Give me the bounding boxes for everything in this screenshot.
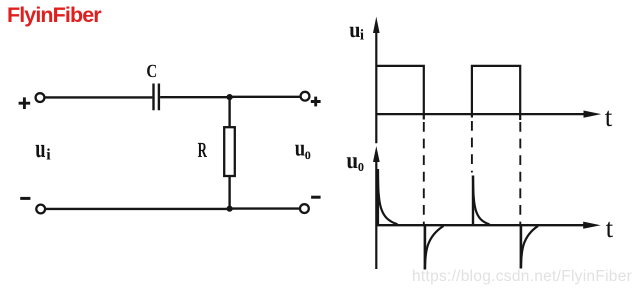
arrowhead u_i axis — [373, 17, 380, 33]
arrowhead t bottom — [583, 222, 601, 229]
u_o spike 2 negative edge — [424, 225, 427, 270]
wire bottom nodeB-to-output — [230, 207, 300, 209]
svg-text:i: i — [46, 147, 51, 164]
dashed line t1 — [423, 122, 425, 225]
svg-text:u: u — [346, 148, 358, 174]
label + (output top) — [311, 97, 321, 107]
u_o spike 4 decay — [521, 226, 538, 269]
resistor R — [224, 127, 235, 176]
dashed line t3 — [519, 122, 521, 225]
svg-text:u: u — [349, 17, 360, 42]
dashed line t2 — [471, 121, 473, 173]
svg-text:t: t — [606, 213, 614, 243]
watermark url text — [412, 268, 632, 286]
u_o spike 1 decay — [378, 169, 398, 224]
waveform u_i square wave pulse 1 — [376, 66, 423, 120]
svg-text:o: o — [358, 156, 364, 175]
terminal bottom-left — [36, 205, 45, 214]
terminal top-left — [36, 93, 45, 102]
terminal top-right — [301, 92, 310, 101]
axis t bottom horizontal — [376, 224, 586, 226]
arrowhead t top — [584, 111, 602, 118]
svg-text:C: C — [146, 61, 157, 82]
u_o spike 2 decay — [425, 226, 444, 270]
svg-text:u: u — [35, 133, 46, 163]
svg-text:u: u — [295, 135, 305, 161]
node A (top junction) — [227, 94, 233, 100]
wire top nodeA-to-output — [230, 96, 301, 98]
terminal bottom-right — [300, 204, 309, 213]
u_o spike 4 negative edge — [520, 225, 523, 269]
svg-text:i: i — [360, 27, 364, 43]
label minus (output bottom) — [311, 196, 321, 199]
arrowhead u_o axis — [373, 146, 380, 162]
label minus (input bottom) — [20, 197, 30, 200]
svg-text:o: o — [305, 146, 311, 163]
wire nodeA-to-R — [228, 97, 230, 128]
node B (bottom junction) — [227, 206, 233, 212]
svg-text:t: t — [605, 102, 613, 132]
u_o spike 1 positive edge — [377, 169, 379, 225]
wire R-to-nodeB — [228, 176, 230, 209]
wire bottom input-to-nodeB — [45, 208, 229, 210]
u_o spike 3 positive edge — [472, 176, 474, 225]
label + (input top) — [19, 97, 31, 109]
wire top input-to-C — [45, 96, 153, 98]
svg-text:R: R — [198, 138, 208, 162]
logo text FlyinFiber — [7, 3, 101, 28]
u_o spike 3 decay — [473, 176, 490, 225]
waveform u_i square wave pulse 2 — [472, 66, 520, 120]
wire top C-to-nodeA — [160, 96, 230, 98]
capacitor C — [154, 84, 159, 111]
axis u_o vertical — [375, 158, 377, 269]
axis t top horizontal — [376, 113, 586, 115]
axis u_i vertical — [375, 30, 377, 143]
